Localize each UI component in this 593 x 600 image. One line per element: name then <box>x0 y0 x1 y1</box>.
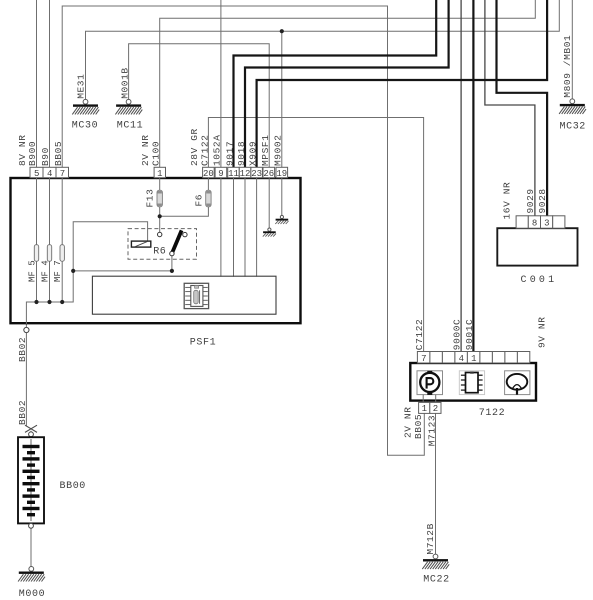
svg-text:19: 19 <box>276 169 287 179</box>
svg-text:C100: C100 <box>151 141 162 166</box>
svg-text:16V NR: 16V NR <box>501 182 512 220</box>
svg-text:BB02: BB02 <box>17 400 28 425</box>
svg-text:M000: M000 <box>19 589 45 600</box>
svg-text:7: 7 <box>60 169 65 179</box>
svg-text:M9002: M9002 <box>273 134 284 166</box>
svg-text:C7122: C7122 <box>414 319 425 351</box>
svg-text:BB05: BB05 <box>413 414 424 439</box>
svg-text:23: 23 <box>251 169 262 179</box>
svg-text:C001: C001 <box>521 275 558 286</box>
svg-text:B900: B900 <box>27 141 38 166</box>
svg-text:BB02: BB02 <box>17 337 28 362</box>
svg-text:MF 4: MF 4 <box>40 260 50 282</box>
svg-text:2V NR: 2V NR <box>403 406 414 438</box>
svg-text:X909: X909 <box>247 141 258 166</box>
svg-text:26: 26 <box>263 169 274 179</box>
svg-text:1052A: 1052A <box>212 134 223 166</box>
svg-text:9V NR: 9V NR <box>537 316 548 348</box>
svg-text:9028: 9028 <box>537 188 548 213</box>
svg-text:11: 11 <box>228 169 239 179</box>
svg-text:8: 8 <box>532 218 537 228</box>
svg-text:2V NR: 2V NR <box>140 134 151 166</box>
svg-text:4: 4 <box>47 169 52 179</box>
svg-text:1: 1 <box>422 404 427 414</box>
svg-text:F6: F6 <box>193 194 204 207</box>
svg-text:3: 3 <box>544 218 549 228</box>
svg-text:1: 1 <box>471 354 476 364</box>
svg-text:MC30: MC30 <box>72 121 98 132</box>
svg-text:PSF1: PSF1 <box>190 338 216 349</box>
svg-text:M712B: M712B <box>425 523 436 555</box>
svg-text:C7122: C7122 <box>199 134 210 166</box>
svg-text:4: 4 <box>459 354 464 364</box>
svg-text:9018: 9018 <box>236 141 247 166</box>
svg-text:MC32: MC32 <box>560 121 586 132</box>
svg-text:9017: 9017 <box>224 141 235 166</box>
svg-text:1: 1 <box>157 169 162 179</box>
svg-text:M809 /MB01: M809 /MB01 <box>562 35 573 98</box>
svg-text:F13: F13 <box>145 189 156 208</box>
svg-text:MF 5: MF 5 <box>27 260 37 282</box>
svg-text:9000C: 9000C <box>452 319 463 351</box>
svg-text:ME31: ME31 <box>75 74 86 99</box>
svg-text:BB05: BB05 <box>53 141 64 166</box>
svg-text:9001C: 9001C <box>464 319 475 351</box>
svg-text:12: 12 <box>240 169 251 179</box>
svg-text:20: 20 <box>203 169 214 179</box>
svg-text:R6: R6 <box>153 246 166 257</box>
svg-text:28V GR: 28V GR <box>189 128 200 166</box>
svg-text:MPSF1: MPSF1 <box>260 134 271 166</box>
svg-text:7: 7 <box>421 354 426 364</box>
svg-text:M001B: M001B <box>119 67 130 99</box>
svg-text:MC22: MC22 <box>423 574 449 585</box>
svg-text:9029: 9029 <box>525 188 536 213</box>
svg-text:9: 9 <box>218 169 223 179</box>
svg-text:5: 5 <box>34 169 39 179</box>
svg-text:7122: 7122 <box>479 408 505 419</box>
svg-text:MF 7: MF 7 <box>53 260 63 282</box>
svg-text:BB00: BB00 <box>60 481 86 492</box>
svg-text:B90: B90 <box>40 147 51 166</box>
svg-text:2: 2 <box>433 404 438 414</box>
svg-text:M7123: M7123 <box>426 415 437 447</box>
svg-text:MC11: MC11 <box>117 121 143 132</box>
